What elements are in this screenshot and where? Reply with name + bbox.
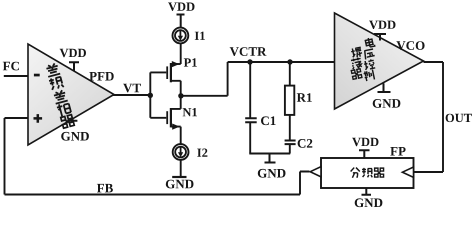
wire I2 to GND xyxy=(180,160,182,177)
label 分频器 (divider Chinese label) xyxy=(351,168,384,178)
label 鉴频鉴相器 (PFD Chinese label) xyxy=(45,63,74,128)
node drain junction dot xyxy=(178,93,183,98)
wire VT (PFD output to gate rail) xyxy=(113,94,150,96)
transistor N1 (NMOS) xyxy=(150,96,180,144)
GND bar (VCO) xyxy=(378,83,391,92)
transistor P1 (PMOS) xyxy=(150,61,180,96)
label 电压控制 (VCO Chinese label col 1) xyxy=(363,37,375,81)
label VT xyxy=(123,84,141,93)
divider output arrowhead (left) xyxy=(310,167,321,177)
wire VCO output OUT xyxy=(414,62,444,172)
label VDD (PFD) xyxy=(60,49,86,57)
node VT junction dot xyxy=(148,93,153,98)
label I1 xyxy=(195,32,205,40)
label FP xyxy=(390,147,405,156)
wire I1 to P1 xyxy=(180,43,182,64)
label OUT xyxy=(446,114,472,122)
label I2 xyxy=(197,149,207,157)
minus input sign xyxy=(34,74,40,77)
wire C1 branch upper xyxy=(249,62,251,118)
label N1 xyxy=(183,108,197,116)
label VDD (charge pump) xyxy=(168,3,194,11)
label GND (PFD) xyxy=(61,132,89,141)
label GND (charge pump) xyxy=(166,180,194,189)
label VDD (VCO) xyxy=(369,21,395,29)
current source I2 xyxy=(173,144,189,160)
label VDD (divider) xyxy=(352,138,378,146)
wire C1 branch lower xyxy=(249,123,251,154)
wire FB feedback xyxy=(5,118,310,195)
label GND (loop filter) xyxy=(258,169,286,178)
capacitor C1 xyxy=(245,118,257,122)
divider box xyxy=(321,158,414,188)
label PFD xyxy=(89,72,113,81)
label FB xyxy=(97,184,113,193)
label P1 xyxy=(184,58,197,66)
label GND (divider) xyxy=(355,198,383,207)
label C1 xyxy=(261,116,276,125)
label VCO xyxy=(396,41,424,50)
resistor R1 xyxy=(285,86,294,115)
GND bar (PFD) xyxy=(68,119,78,121)
wire FC input xyxy=(4,75,28,77)
GND bar (loop filter) xyxy=(265,154,276,163)
label 振荡器 (VCO Chinese label col 2) xyxy=(351,47,363,80)
wire gate rail xyxy=(149,72,151,117)
label FC xyxy=(3,62,19,71)
capacitor C2 xyxy=(285,141,296,145)
wire C2 branch lower xyxy=(289,145,291,154)
op-amp U1 PFD triangle xyxy=(28,44,114,145)
node C1 branch junction xyxy=(247,59,252,64)
divider input arrowhead (right) xyxy=(402,167,413,177)
label R1 xyxy=(297,93,312,102)
plus input sign xyxy=(34,114,43,123)
VDD rail bar (charge pump) xyxy=(177,15,185,28)
label C2 xyxy=(298,139,313,148)
VDD rail bar (PFD) xyxy=(69,62,79,70)
VDD rail bar (VCO) xyxy=(374,34,386,41)
VDD rail bar (divider) xyxy=(359,150,370,158)
current source I1 xyxy=(173,28,189,44)
label VCTR xyxy=(230,47,267,56)
wire charge pump output to VCTR xyxy=(181,62,335,96)
GND bar (charge pump) xyxy=(172,176,186,178)
GND bar (divider) xyxy=(362,188,372,195)
wire R1 to C2 xyxy=(289,114,291,140)
wire filter bottom rail xyxy=(249,153,290,155)
wire R1 branch upper xyxy=(289,62,291,86)
label GND (VCO) xyxy=(373,99,401,108)
op-amp U2 VCO triangle xyxy=(335,13,424,109)
node R1 branch junction xyxy=(287,59,292,64)
